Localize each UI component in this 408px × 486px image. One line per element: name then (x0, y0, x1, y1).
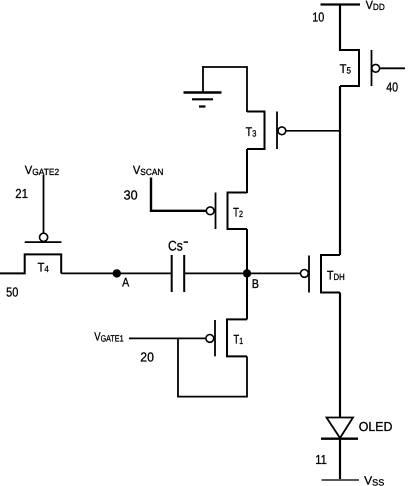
wire T2 to node B (246, 229, 248, 273)
svg-text:Cs: Cs (168, 238, 183, 254)
main rail T5 to TDH (339, 86, 341, 255)
svg-text:B: B (252, 277, 259, 291)
wire capacitor to node B (184, 272, 247, 274)
wire T3 gate to main rail (286, 130, 340, 132)
svg-text:40: 40 (386, 80, 398, 95)
wire OLED to VSS (339, 439, 341, 480)
svg-text:VDD: VDD (366, 0, 386, 12)
wire VGATE2 to T4 gate (43, 175, 45, 233)
wire T4 to capacitor (61, 272, 171, 274)
transistor T2 (206, 193, 247, 230)
wire VSCAN to T2 gate (151, 178, 206, 211)
node A (113, 269, 121, 277)
transistor T3 (246, 112, 286, 150)
OLED diode (321, 418, 392, 439)
wire ground to T3 drain (203, 67, 247, 112)
wire TDH to OLED (339, 293, 341, 419)
ground (184, 66, 222, 107)
transistor T1 (206, 319, 247, 356)
wire VDD to T5 (339, 5, 341, 52)
wire VGATE1 to T1 gate (129, 337, 206, 339)
svg-text:20: 20 (140, 349, 154, 364)
wire T5 gate to node 40 (380, 67, 405, 69)
svg-text:50: 50 (6, 284, 18, 299)
transistor TDH (301, 255, 345, 293)
wire node B to T1 drain (246, 273, 248, 319)
capacitor CS (168, 238, 188, 293)
svg-text:A: A (122, 275, 130, 289)
node B (243, 269, 251, 277)
transistor T4 (0, 233, 62, 274)
VSS power rail (322, 479, 360, 481)
svg-text:10: 10 (312, 10, 324, 25)
VDD power rail (321, 3, 361, 5)
svg-text:OLED: OLED (359, 419, 393, 434)
svg-text:11: 11 (315, 452, 327, 467)
wire T1 source loop to gate line (178, 338, 247, 396)
svg-text:21: 21 (15, 186, 28, 201)
svg-text:30: 30 (124, 188, 138, 203)
wire T3 to T2 (246, 149, 248, 193)
transistor T5 (340, 50, 380, 86)
wire node B to TDH gate (247, 272, 300, 274)
